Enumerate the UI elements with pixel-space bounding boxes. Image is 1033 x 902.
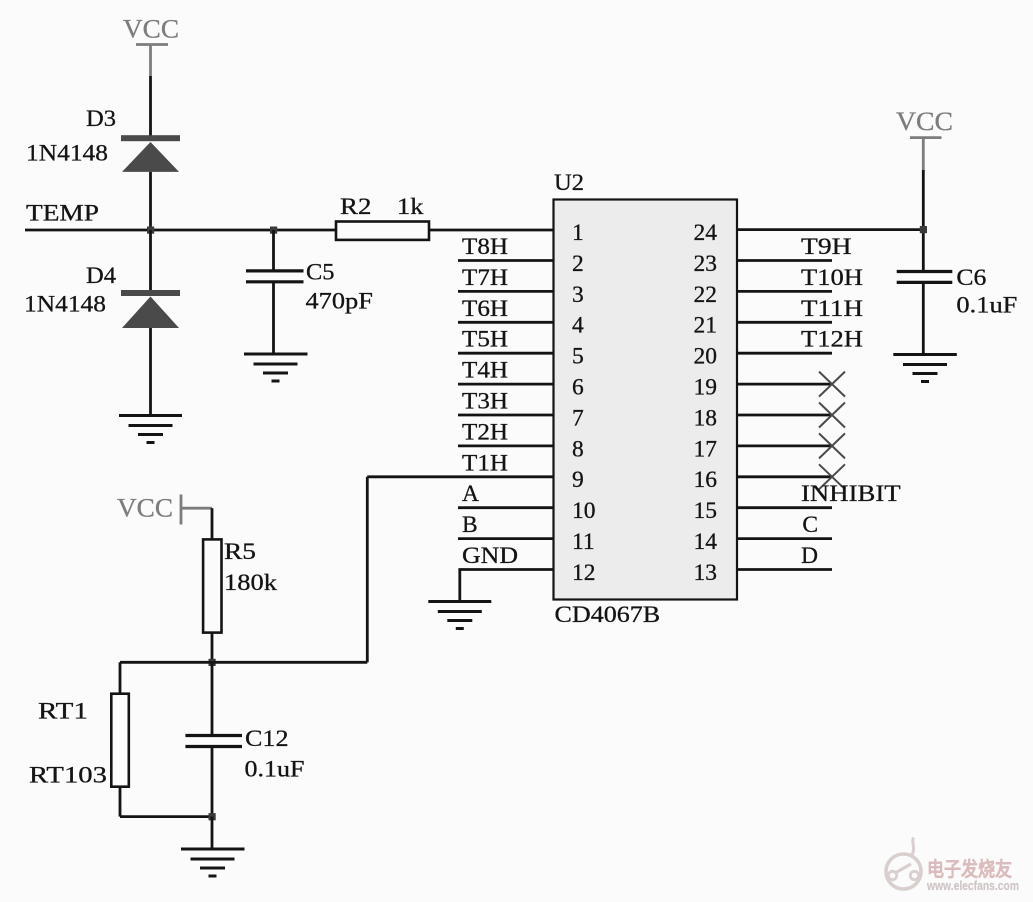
no-connect X pin16 [819,464,845,489]
svg-text:0.1uF: 0.1uF [956,293,1017,319]
wire pin11 + label B [458,512,554,539]
wire pin5 + label T5H [458,327,554,354]
wire pin20 + label T12H [737,327,863,354]
wire pin4 + label T6H [458,296,554,323]
wire pin24 to VCC node [737,228,923,231]
IC U2 CD4067B body [554,170,738,628]
power VCC (top-left) [123,15,179,77]
svg-text:D4: D4 [86,263,116,289]
svg-text:R5: R5 [224,539,256,565]
svg-text:VCC: VCC [896,107,953,136]
wire R2 to U2 pin 1 [429,229,554,232]
wire pin12 + label GND [458,543,553,601]
watermark logo [886,838,921,890]
ground below C6 [893,355,957,382]
svg-text:3: 3 [572,282,584,308]
svg-text:INHIBIT: INHIBIT [801,481,901,507]
no-connect X pin17 [819,433,845,458]
svg-text:B: B [462,512,478,538]
wire pin7 + label T3H [458,389,554,416]
wire pin8 + label T2H [458,419,554,446]
junction R5/RT1/C12 node [209,659,216,666]
wire node to ground [211,817,214,849]
wire pin9 (to R5/RT1 node) + label T1H [367,450,553,477]
svg-text:1k: 1k [397,194,424,220]
diode D3 [26,106,180,172]
wire VCC down to C6 [922,170,925,270]
wire pin19 (no connect) [737,383,832,386]
junction at C5 on TEMP [270,227,277,234]
wire C6 to ground [922,284,925,355]
wire pin22 + label T10H [737,265,863,292]
svg-text:C: C [802,512,818,538]
wire D3 anode to TEMP net [149,172,152,230]
wire pin2 + label T8H [458,234,554,261]
svg-text:VCC: VCC [117,494,173,523]
svg-text:1N4148: 1N4148 [24,292,106,318]
svg-text:4: 4 [572,313,584,339]
svg-text:19: 19 [694,375,718,401]
svg-text:R2: R2 [340,194,371,220]
svg-text:10: 10 [572,498,596,524]
svg-text:A: A [462,481,479,507]
capacitor C6 [897,265,1018,319]
capacitor C12 [185,662,304,816]
svg-text:T1H: T1H [462,450,508,476]
svg-text:T6H: T6H [462,296,508,322]
svg-text:TEMP: TEMP [26,201,99,227]
svg-text:RT1: RT1 [38,699,88,725]
wire pin6 + label T4H [458,358,554,385]
wire pin23 + label T9H [737,234,852,261]
ground below pin12 [428,602,491,629]
wire pin3 + label T7H [458,265,554,292]
wire pin14 + label C [737,512,832,539]
svg-text:24: 24 [694,220,718,246]
thermistor RT1 [29,662,212,816]
svg-text:D3: D3 [86,106,116,132]
svg-text:C5: C5 [306,260,335,286]
svg-text:U2: U2 [554,170,584,196]
resistor R2 [336,194,429,240]
svg-text:T8H: T8H [462,234,508,260]
svg-text:C6: C6 [956,265,986,291]
svg-text:D: D [801,543,818,569]
no-connect X pin19 [819,372,845,397]
svg-text:21: 21 [694,313,718,339]
svg-text:7: 7 [572,405,584,431]
wire R5 to node [211,633,214,663]
svg-text:www.elecfans.com: www.elecfans.com [926,878,1019,893]
svg-text:GND: GND [462,543,518,569]
ground below C5 [244,354,308,381]
svg-text:T2H: T2H [462,419,508,445]
svg-text:0.1uF: 0.1uF [245,757,305,783]
wire pin13 + label D [737,543,832,570]
svg-text:470pF: 470pF [306,289,373,315]
power VCC (mid-left) [117,494,212,525]
svg-text:VCC: VCC [123,15,179,44]
svg-text:9: 9 [572,467,584,493]
watermark text [926,857,1019,893]
svg-text:T3H: T3H [462,389,508,415]
wire VCC to R5 [211,508,214,539]
svg-text:C12: C12 [245,726,289,752]
junction at D3/D4 on TEMP [147,227,154,234]
wire C5 to ground [272,283,275,354]
resistor R5 [203,539,277,633]
svg-text:11: 11 [572,529,595,555]
diode D4 [24,230,180,328]
node TEMP [25,201,336,231]
svg-text:RT103: RT103 [29,763,107,789]
junction RT1/C12 bottom node [209,813,216,820]
wire pin15 + label INHIBIT [737,481,901,508]
svg-text:15: 15 [694,498,718,524]
svg-text:2: 2 [572,251,584,277]
pin numbers right 24-13 [694,220,718,586]
pin numbers left 1-12 [572,220,596,586]
wire D4 anode to ground [149,328,152,415]
svg-text:5: 5 [572,344,584,370]
svg-text:8: 8 [572,436,584,462]
svg-text:6: 6 [572,375,584,401]
ground below D4 [119,416,182,443]
svg-text:23: 23 [694,251,718,277]
svg-text:18: 18 [694,405,718,431]
svg-text:12: 12 [572,560,596,586]
wire pin16 (no connect) [737,475,832,478]
svg-text:14: 14 [694,529,718,555]
svg-text:T10H: T10H [801,265,863,291]
svg-text:T9H: T9H [801,234,852,260]
wire node horizontal + up to pin9 [120,477,367,663]
svg-text:180k: 180k [224,570,277,596]
svg-text:22: 22 [694,282,718,308]
wire VCC to D3 cathode [149,76,152,137]
no-connect X pin18 [819,403,845,428]
wire pin18 (no connect) [737,414,832,417]
svg-text:T11H: T11H [801,296,863,322]
svg-text:CD4067B: CD4067B [555,602,661,628]
ground bottom [181,849,245,876]
svg-text:13: 13 [694,560,718,586]
capacitor C5 [246,260,373,315]
wire TEMP to C5 [272,230,275,270]
junction pin24/VCC [920,226,927,233]
wire pin21 + label T11H [737,296,863,323]
svg-text:T12H: T12H [801,327,863,353]
svg-text:1N4148: 1N4148 [26,141,108,167]
svg-text:17: 17 [694,436,718,462]
svg-text:1: 1 [572,220,584,246]
power VCC (top-right) [896,107,953,170]
wire pin17 (no connect) [737,444,832,447]
svg-text:20: 20 [694,344,718,370]
wire pin10 + label A [458,481,554,508]
svg-text:T4H: T4H [462,358,508,384]
svg-text:T5H: T5H [462,327,508,353]
svg-text:T7H: T7H [462,265,508,291]
svg-text:16: 16 [694,467,718,493]
